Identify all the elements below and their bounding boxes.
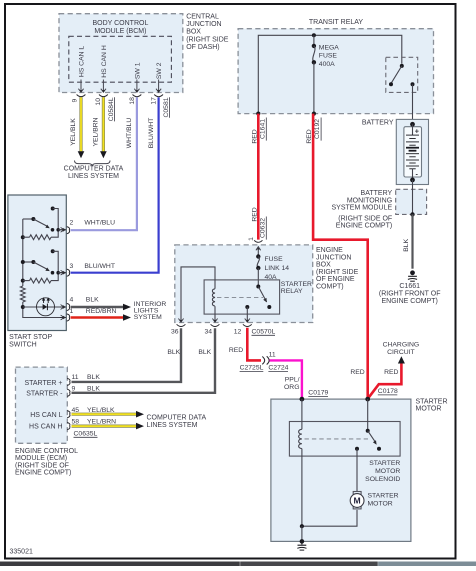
relay switch contacts bbox=[245, 285, 271, 323]
svg-text:SW 1: SW 1 bbox=[135, 62, 142, 79]
svg-text:FUSE: FUSE bbox=[319, 53, 338, 60]
svg-text:M: M bbox=[354, 496, 361, 506]
svg-text:(RIGHT SIDE OF: (RIGHT SIDE OF bbox=[338, 215, 392, 222]
svg-text:RED: RED bbox=[306, 129, 313, 143]
wire solenoid output to motor bbox=[356, 449, 358, 492]
svg-text:ORG: ORG bbox=[284, 384, 299, 391]
central junction box (dashed) bbox=[59, 14, 183, 93]
body control module BCM bbox=[69, 20, 172, 82]
svg-text:17: 17 bbox=[151, 97, 158, 105]
svg-text:COMPT): COMPT) bbox=[316, 284, 344, 291]
svg-text:BATTERY: BATTERY bbox=[361, 190, 393, 197]
starter motor solenoid bbox=[289, 422, 400, 484]
svg-text:C1641: C1641 bbox=[259, 119, 266, 139]
svg-text:BLU/WHT: BLU/WHT bbox=[84, 263, 115, 270]
svg-text:1: 1 bbox=[70, 308, 74, 315]
indicator lamp bbox=[21, 297, 66, 316]
svg-text:SOLENOID: SOLENOID bbox=[365, 476, 400, 483]
svg-text:WHT/BLU: WHT/BLU bbox=[84, 220, 115, 227]
svg-text:HS CAN H: HS CAN H bbox=[29, 424, 62, 431]
svg-text:BLU/WHT: BLU/WHT bbox=[148, 118, 155, 149]
svg-text:STARTER: STARTER bbox=[368, 492, 399, 499]
fuse link 14 40A F14 bbox=[256, 250, 289, 282]
svg-text:HS CAN L: HS CAN L bbox=[30, 412, 62, 419]
svg-text:SWITCH: SWITCH bbox=[9, 341, 37, 348]
node ECM pin 45 bbox=[67, 407, 115, 418]
svg-text:BOX: BOX bbox=[186, 28, 201, 35]
node EJB pin 1 entry C0632 bbox=[248, 237, 263, 250]
svg-text:1: 1 bbox=[248, 237, 255, 241]
svg-text:36: 36 bbox=[171, 328, 179, 335]
svg-text:(RIGHT SIDE: (RIGHT SIDE bbox=[186, 37, 229, 44]
svg-text:HS CAN H: HS CAN H bbox=[101, 45, 108, 78]
wire solenoid coil feed bbox=[301, 399, 303, 429]
svg-text:STARTER: STARTER bbox=[416, 398, 448, 405]
svg-text:CHARGING: CHARGING bbox=[383, 342, 420, 349]
wire YEL/BLK ECM 45 bbox=[72, 411, 145, 418]
svg-text:BLK: BLK bbox=[198, 349, 211, 356]
node EJB pin 34 bbox=[205, 319, 220, 336]
svg-text:18: 18 bbox=[129, 97, 136, 105]
svg-text:FUSE: FUSE bbox=[265, 256, 284, 263]
resistor (vertical, lamp feed) bbox=[20, 286, 25, 302]
relay actuation dashed link bbox=[217, 297, 263, 299]
svg-text:STARTER: STARTER bbox=[281, 281, 312, 288]
node ECM pin 11 bbox=[67, 374, 100, 386]
svg-text:STARTER -: STARTER - bbox=[26, 390, 63, 397]
svg-text:BODY CONTROL: BODY CONTROL bbox=[92, 20, 148, 27]
svg-text:RED: RED bbox=[350, 369, 364, 376]
engine junction box (dashed) bbox=[175, 245, 313, 323]
svg-text:(RIGHT FRONT OF: (RIGHT FRONT OF bbox=[379, 291, 441, 298]
svg-text:C0178: C0178 bbox=[378, 388, 398, 395]
wire RED C1641 to engine junction box bbox=[251, 114, 266, 240]
svg-text:HS CAN L: HS CAN L bbox=[79, 46, 86, 78]
svg-text:ENGINE COMPT): ENGINE COMPT) bbox=[336, 223, 392, 230]
svg-text:START STOP: START STOP bbox=[9, 334, 52, 341]
wire internal left rail bbox=[23, 219, 66, 318]
svg-text:3: 3 bbox=[70, 263, 74, 270]
battery monitoring system module (dashed) bbox=[332, 189, 427, 229]
svg-text:PPL/: PPL/ bbox=[285, 376, 300, 383]
svg-text:11: 11 bbox=[269, 352, 276, 359]
svg-text:LINES SYSTEM: LINES SYSTEM bbox=[68, 173, 119, 180]
svg-text:STARTER +: STARTER + bbox=[24, 380, 62, 387]
svg-text:2: 2 bbox=[70, 220, 74, 227]
EJB caption bbox=[316, 247, 359, 291]
svg-text:WHT/BLU: WHT/BLU bbox=[126, 118, 133, 149]
svg-text:COMPUTER DATA: COMPUTER DATA bbox=[64, 166, 124, 173]
transit relay K1 (dashed box) bbox=[238, 19, 433, 113]
wire RED/BRN pin 1 to interior lights bbox=[71, 314, 132, 321]
switch contact (pin 3 group) bbox=[21, 249, 66, 274]
node SW 2 pin 17 connector C0581 bbox=[151, 62, 171, 118]
svg-text:MEGA: MEGA bbox=[319, 44, 339, 51]
svg-text:ENGINE: ENGINE bbox=[316, 247, 343, 254]
junction C0192 tap bbox=[312, 112, 316, 116]
wire transit relay bus bbox=[258, 35, 402, 113]
wire switch to battery bbox=[412, 84, 414, 124]
svg-text:C2724: C2724 bbox=[268, 365, 288, 372]
svg-text:+: + bbox=[415, 127, 419, 136]
wire battery to BMS bbox=[410, 180, 414, 217]
interior lights system bbox=[134, 301, 167, 321]
resistor (pin 3 branch) bbox=[21, 275, 58, 284]
node ECM pin 58 connector C0635L bbox=[67, 418, 116, 437]
svg-text:RELAY: RELAY bbox=[281, 288, 303, 295]
wire PPL/ORG to starter motor C0179 bbox=[270, 360, 329, 398]
svg-text:MONITORING: MONITORING bbox=[347, 197, 392, 204]
svg-text:C0584L: C0584L bbox=[108, 97, 115, 121]
wire RED C0192 to starter motor bbox=[306, 114, 368, 399]
svg-text:MOTOR: MOTOR bbox=[375, 468, 400, 475]
svg-text:400A: 400A bbox=[319, 61, 335, 68]
node HS CAN H pin 10 connector C0584L bbox=[95, 45, 115, 121]
wire BLU/WHT pin 17 to start stop switch pin 3 bbox=[71, 97, 159, 272]
node pin 3 bbox=[60, 263, 115, 276]
svg-text:(RIGHT SIDE: (RIGHT SIDE bbox=[316, 269, 359, 276]
svg-text:11: 11 bbox=[72, 374, 79, 381]
CJB caption bbox=[186, 13, 229, 51]
wire label BLK (36) bbox=[167, 349, 180, 356]
svg-text:C0192: C0192 bbox=[314, 119, 321, 139]
svg-text:SYSTEM MODULE: SYSTEM MODULE bbox=[332, 205, 393, 212]
svg-text:C0632: C0632 bbox=[259, 218, 266, 238]
svg-text:MODULE (ECM): MODULE (ECM) bbox=[15, 455, 67, 462]
svg-text:YEL/BRN: YEL/BRN bbox=[87, 418, 116, 425]
wire BLK pin 4 to interior lights bbox=[71, 304, 132, 311]
svg-text:BLK: BLK bbox=[87, 374, 100, 381]
ECM caption bbox=[15, 448, 78, 477]
svg-text:COMPUTER DATA: COMPUTER DATA bbox=[147, 415, 207, 422]
svg-text:BATTERY: BATTERY bbox=[362, 119, 394, 126]
svg-text:10: 10 bbox=[95, 98, 102, 106]
transit relay switch (dashed) bbox=[386, 57, 418, 92]
svg-text:OF DASH): OF DASH) bbox=[186, 44, 219, 51]
starter motor M bbox=[350, 492, 398, 509]
svg-text:RED: RED bbox=[384, 369, 398, 376]
junction C1641 tap bbox=[256, 112, 260, 116]
solenoid coil bbox=[299, 429, 302, 526]
wire RED branch to charging circuit C0178 bbox=[350, 342, 419, 399]
wire BLK to ground C1661 bbox=[403, 214, 413, 268]
connector C2725L / C2724 pin 11 bbox=[240, 352, 289, 372]
wire BLK ECM 9 to starter relay 34 bbox=[72, 328, 216, 393]
wire to ground bbox=[300, 526, 305, 544]
svg-text:OF ENGINE: OF ENGINE bbox=[316, 276, 355, 283]
svg-text:58: 58 bbox=[72, 418, 80, 425]
computer data lines system (top) bbox=[64, 161, 124, 181]
svg-text:MOTOR: MOTOR bbox=[416, 406, 442, 413]
ground G1 C1661 bbox=[379, 270, 441, 305]
svg-text:(RIGHT SIDE OF: (RIGHT SIDE OF bbox=[15, 462, 69, 469]
solenoid switch bbox=[355, 399, 381, 451]
mega fuse 400A bbox=[312, 35, 340, 113]
svg-text:12: 12 bbox=[234, 328, 242, 335]
wire coil jumper pin 36 bbox=[181, 267, 215, 322]
svg-text:BOX: BOX bbox=[316, 262, 331, 269]
svg-text:BLK: BLK bbox=[87, 385, 100, 392]
svg-text:CIRCUIT: CIRCUIT bbox=[387, 349, 415, 356]
node pin 1 bbox=[60, 308, 116, 321]
svg-text:C2725L: C2725L bbox=[240, 365, 264, 372]
wire YEL/BRN ECM 58 bbox=[72, 423, 145, 430]
relay coil bbox=[212, 289, 215, 323]
svg-text:C0635L: C0635L bbox=[74, 430, 98, 437]
switch contact (pin 2 group) bbox=[23, 207, 66, 232]
resistor (pin 2 branch) bbox=[21, 232, 58, 240]
computer data lines system (bottom) bbox=[147, 415, 207, 429]
svg-text:RED: RED bbox=[251, 129, 258, 143]
node SW 1 pin 18 bbox=[129, 62, 142, 104]
svg-text:JUNCTION: JUNCTION bbox=[186, 21, 221, 28]
svg-text:9: 9 bbox=[72, 385, 76, 392]
node EJB pin 12 connector C0570L bbox=[234, 319, 276, 336]
battery bbox=[362, 119, 429, 184]
svg-text:JUNCTION: JUNCTION bbox=[316, 254, 351, 261]
junction mega fuse tap bbox=[312, 33, 316, 37]
svg-text:ENGINE COMPT): ENGINE COMPT) bbox=[382, 298, 438, 305]
svg-text:MODULE (BCM): MODULE (BCM) bbox=[94, 28, 146, 35]
svg-text:BLK: BLK bbox=[403, 238, 410, 251]
start stop switch S1 bbox=[8, 195, 66, 348]
node EJB pin 36 bbox=[171, 319, 185, 336]
node pin 2 bbox=[60, 220, 115, 234]
svg-text:RED: RED bbox=[251, 207, 258, 221]
wire WHT/BLU pin 18 to start stop switch pin 2 bbox=[71, 97, 137, 230]
engine control module ECM bbox=[16, 367, 68, 443]
wire motor return bbox=[300, 510, 357, 528]
svg-text:9: 9 bbox=[71, 98, 78, 102]
svg-text:BLK: BLK bbox=[167, 349, 180, 356]
svg-text:C0179: C0179 bbox=[308, 389, 328, 396]
svg-text:C0581: C0581 bbox=[163, 97, 170, 117]
wire fuse link to relay switch bbox=[257, 268, 259, 287]
svg-text:YEL/BRN: YEL/BRN bbox=[93, 117, 100, 146]
wire label BLK (34) bbox=[198, 349, 211, 356]
svg-text:YEL/BLK: YEL/BLK bbox=[70, 118, 77, 146]
svg-text:SW 2: SW 2 bbox=[156, 62, 163, 79]
svg-text:LINK 14: LINK 14 bbox=[265, 265, 290, 272]
svg-text:MOTOR: MOTOR bbox=[368, 500, 393, 507]
svg-text:BLK: BLK bbox=[86, 297, 99, 304]
svg-text:34: 34 bbox=[205, 328, 213, 335]
svg-text:LINES SYSTEM: LINES SYSTEM bbox=[147, 422, 198, 429]
svg-text:RED: RED bbox=[229, 347, 243, 354]
wire RED pin 12 to C2725L bbox=[229, 328, 261, 361]
svg-text:C0570L: C0570L bbox=[252, 328, 276, 335]
svg-text:SYSTEM: SYSTEM bbox=[134, 314, 162, 321]
node C0179 junction bbox=[300, 397, 305, 402]
svg-text:ENGINE CONTROL: ENGINE CONTROL bbox=[15, 448, 78, 455]
node ECM pin 9 bbox=[67, 385, 100, 396]
svg-text:C1661: C1661 bbox=[399, 283, 420, 290]
wire YEL/BRN pin 10 to computer data lines bbox=[93, 97, 107, 158]
starter motor assembly bbox=[271, 398, 448, 541]
node HS CAN L pin 9 bbox=[71, 46, 85, 103]
node pin 4 bbox=[60, 297, 99, 311]
wire YEL/BLK pin 9 to computer data lines bbox=[70, 97, 84, 158]
svg-text:RED/BRN: RED/BRN bbox=[86, 308, 117, 315]
wire BLK ECM 11 to starter relay 36 bbox=[72, 328, 182, 382]
node C0178 junction bbox=[365, 397, 370, 402]
solenoid dashed link bbox=[305, 438, 369, 440]
starter relay (in EJB) bbox=[204, 280, 312, 314]
svg-text:STARTER: STARTER bbox=[369, 460, 400, 467]
svg-text:ENGINE COMPT): ENGINE COMPT) bbox=[15, 470, 71, 477]
svg-text:335021: 335021 bbox=[10, 549, 33, 556]
ground G2 (starter motor) bbox=[297, 541, 306, 550]
svg-text:TRANSIT RELAY: TRANSIT RELAY bbox=[309, 19, 364, 26]
svg-text:4: 4 bbox=[70, 297, 74, 304]
svg-text:CENTRAL: CENTRAL bbox=[186, 13, 219, 20]
